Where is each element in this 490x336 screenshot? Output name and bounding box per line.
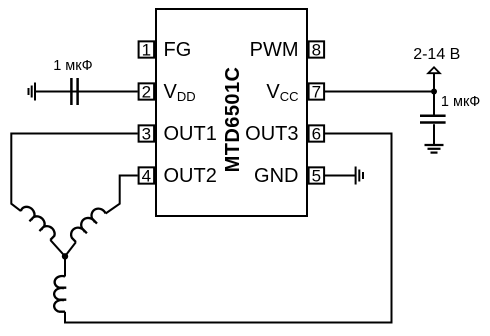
svg-text:1: 1 — [142, 41, 151, 60]
svg-text:2: 2 — [142, 83, 151, 102]
IC U1 MTD6501C body — [156, 9, 307, 216]
wire pin5 GND to ground — [325, 175, 355, 177]
node (star point) — [62, 253, 68, 259]
svg-text:OUT1: OUT1 — [164, 123, 217, 145]
pin 5 box — [309, 167, 325, 183]
wire pin3 OUT1 to left corner — [11, 134, 137, 212]
wire pin2 to capacitor C1 — [70, 91, 137, 93]
svg-text:7: 7 — [312, 83, 321, 102]
wire inductor L2 to node — [65, 242, 76, 256]
power supply symbol (open triangle) — [428, 67, 440, 73]
pin 2 box — [139, 83, 155, 99]
wire node to inductor L3 — [64, 256, 66, 276]
capacitor C2 — [420, 116, 446, 123]
inductor L2 (right winding) — [68, 205, 107, 243]
svg-text:FG: FG — [164, 39, 192, 61]
svg-text:GND: GND — [254, 165, 298, 187]
svg-text:1 мкФ: 1 мкФ — [53, 58, 92, 74]
svg-text:8: 8 — [312, 41, 321, 60]
pin 7 box — [309, 83, 325, 99]
svg-text:OUT3: OUT3 — [245, 123, 298, 145]
capacitor C1 — [71, 78, 77, 105]
pin 3 box — [139, 125, 155, 141]
wire junction down to capacitor C2 — [433, 92, 435, 116]
ground (below C2) — [425, 145, 444, 153]
wire inductor L1 to node — [50, 240, 65, 256]
wire inductor L3 to pin6 OUT3 — [65, 134, 392, 323]
inductor L1 (left winding) — [19, 204, 57, 241]
wire pin4 OUT2 to corner — [106, 176, 138, 214]
wire capacitor C1 to ground — [35, 91, 71, 93]
svg-text:5: 5 — [312, 167, 321, 186]
wire junction up to supply arrow — [433, 73, 435, 91]
svg-text:2-14 В: 2-14 В — [413, 46, 460, 63]
svg-text:4: 4 — [142, 167, 151, 186]
ground (left of C1) — [29, 83, 36, 101]
svg-text:MTD6501C: MTD6501C — [222, 67, 244, 173]
svg-text:OUT2: OUT2 — [164, 165, 217, 187]
pin 4 box — [139, 167, 155, 183]
svg-text:6: 6 — [312, 125, 321, 144]
pin 8 box — [309, 41, 325, 57]
svg-text:3: 3 — [142, 125, 151, 144]
wire pin7 VCC to junction — [325, 91, 434, 93]
svg-text:1 мкФ: 1 мкФ — [441, 94, 480, 110]
svg-text:PWM: PWM — [250, 39, 299, 61]
inductor L3 (bottom winding) — [54, 276, 66, 312]
ground (pin 5) — [356, 167, 363, 185]
node (VCC junction) — [431, 89, 437, 95]
pin 1 box — [139, 41, 155, 57]
pin 6 box — [309, 125, 325, 141]
wire capacitor C2 to ground — [433, 124, 435, 145]
